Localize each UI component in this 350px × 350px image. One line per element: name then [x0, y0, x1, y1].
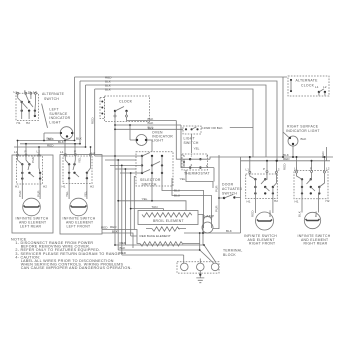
- svg-text:YEL: YEL: [78, 157, 82, 163]
- svg-text:PUR: PUR: [31, 156, 35, 163]
- svg-text:YEL: YEL: [180, 177, 186, 181]
- svg-text:4: 4: [206, 154, 208, 158]
- svg-text:SELECTOR: SELECTOR: [140, 178, 161, 182]
- element right front: [256, 212, 274, 230]
- wire PUR vertical to door switch: [218, 155, 220, 198]
- wire BLU 2: [172, 186, 212, 220]
- svg-text:SWITCH: SWITCH: [44, 97, 59, 101]
- svg-text:L2: L2: [323, 85, 327, 89]
- svg-text:PUR: PUR: [18, 190, 22, 197]
- wire bus BLK 2: [80, 81, 277, 161]
- svg-text:L1: L1: [294, 167, 298, 171]
- svg-text:BLK: BLK: [298, 210, 302, 217]
- svg-text:ALTERNATE: ALTERNATE: [42, 92, 65, 96]
- svg-text:P: P: [263, 167, 265, 171]
- svg-text:RED BAKE ELEMENT: RED BAKE ELEMENT: [140, 234, 171, 238]
- junction dots on rails 2: [249, 156, 326, 162]
- clock switch contacts: [114, 107, 128, 118]
- svg-text:ALTERNATE: ALTERNATE: [296, 79, 319, 83]
- svg-text:DOOR: DOOR: [222, 183, 234, 187]
- wire bake element right: [183, 233, 200, 250]
- lamp: [202, 214, 215, 233]
- svg-text:CAN CAUSE IMPROPER AND DANGERO: CAN CAUSE IMPROPER AND DANGEROUS OPERATI…: [21, 266, 132, 270]
- svg-text:BLU: BLU: [174, 189, 180, 193]
- svg-text:YEL: YEL: [142, 197, 148, 201]
- wire clock left terminal long vertical: [114, 117, 116, 245]
- svg-text:ACTUATED: ACTUATED: [222, 187, 243, 191]
- wire selector rail 3: [110, 165, 184, 263]
- junction dots on rails: [276, 156, 294, 162]
- wire left vertical 2: [79, 81, 81, 144]
- wire selector rail 6: [134, 177, 136, 230]
- wire right rail RED: [241, 160, 331, 162]
- svg-text:H2: H2: [26, 121, 30, 125]
- svg-text:INDICATOR LIGHT: INDICATOR LIGHT: [286, 129, 320, 133]
- wire bus RED top: [75, 77, 288, 157]
- svg-text:RIGHT FRONT: RIGHT FRONT: [249, 242, 275, 246]
- broil element coil lower: [152, 227, 179, 231]
- svg-text:THERMOSTAT: THERMOSTAT: [184, 172, 210, 176]
- svg-text:1: 1: [191, 154, 193, 158]
- infinite switch left rear dashed box: [17, 156, 43, 184]
- terminal block feed diagonals: [200, 245, 216, 263]
- svg-text:LIGHT: LIGHT: [49, 120, 61, 124]
- wire right rail BLK: [244, 156, 333, 158]
- infinite switch right front dashed box: [246, 174, 278, 199]
- right rear terminals: [294, 166, 330, 203]
- wire bottom rail RED: [102, 230, 140, 244]
- infinite switch left front dashed box: [63, 156, 92, 184]
- wire rail RED to left blocks: [14, 146, 86, 148]
- svg-text:L2: L2: [37, 150, 41, 154]
- clock left connector: [100, 98, 105, 119]
- junction dots various: [43, 124, 220, 251]
- alternate clock switch: [315, 85, 327, 96]
- svg-text:L2: L2: [92, 151, 96, 155]
- svg-text:PUR: PUR: [215, 205, 219, 212]
- svg-text:CLOCK: CLOCK: [301, 84, 315, 88]
- wire center vertical 2 to thermostat row2: [181, 125, 184, 168]
- wire left vertical 1: [74, 77, 76, 141]
- wires to element left rear: [22, 179, 40, 199]
- light switch contacts: [185, 127, 203, 131]
- wire broil right down: [198, 215, 203, 234]
- svg-text:L1: L1: [315, 85, 319, 89]
- svg-text:RED: RED: [120, 241, 127, 245]
- wire selector rail 5: [120, 173, 142, 236]
- wire mid post stub: [199, 259, 201, 264]
- selector switch contacts: [141, 153, 172, 187]
- svg-text:RED: RED: [110, 225, 117, 229]
- wire bus BLK 3: [86, 85, 267, 157]
- svg-text:RED: RED: [91, 117, 95, 124]
- bake element coil: [140, 242, 183, 246]
- svg-text:BLK: BLK: [120, 246, 127, 250]
- wire YEL thermostat bottom: [186, 170, 213, 188]
- svg-text:L1: L1: [60, 150, 64, 154]
- svg-text:P: P: [25, 150, 27, 154]
- alternate clock dashed box: [288, 76, 329, 96]
- wire door switch right loop: [184, 157, 241, 233]
- wire center vertical 1 to thermostat row1: [176, 121, 190, 160]
- wire thermostat row2 right down: [213, 168, 215, 182]
- door actuated switch: [219, 195, 241, 200]
- svg-text:BLK: BLK: [148, 117, 155, 121]
- infinite switch right rear dashed box: [294, 171, 328, 199]
- svg-text:BLK: BLK: [148, 121, 155, 125]
- svg-text:BLK: BLK: [301, 137, 308, 141]
- wire rail BLK2 to left blocks: [20, 143, 80, 145]
- svg-text:RED: RED: [251, 210, 255, 217]
- svg-text:LIGHT: LIGHT: [152, 139, 164, 143]
- wire pointer to light: [42, 104, 48, 128]
- svg-text:2WR OR BLK: 2WR OR BLK: [204, 126, 224, 130]
- svg-text:5: 5: [183, 154, 185, 158]
- wire 2WR to right bus drop: [230, 127, 253, 129]
- infinite switch left rear block box: [12, 155, 53, 233]
- svg-text:P: P: [74, 150, 76, 154]
- wire YEL selector down: [118, 186, 186, 211]
- wire BLK line 2: [115, 124, 181, 126]
- wire feeders block LF terminals: [65, 141, 91, 155]
- svg-text:BLK: BLK: [58, 140, 65, 144]
- wire selector rail 4: [115, 169, 136, 245]
- wire feeders block LR terminals: [18, 141, 40, 156]
- svg-text:CLOCK: CLOCK: [119, 100, 133, 104]
- wires to element left front: [69, 178, 87, 199]
- selector switch dashed box: [136, 152, 173, 186]
- element right rear: [304, 212, 320, 228]
- wire bus BLK 4: [95, 89, 253, 157]
- svg-text:2: 2: [191, 163, 193, 167]
- svg-text:L1: L1: [246, 167, 250, 171]
- wire BLU selector to lamp: [162, 186, 204, 220]
- infinite switch left front block box: [60, 155, 102, 234]
- svg-text:L1: L1: [14, 150, 18, 154]
- svg-text:H2: H2: [274, 199, 278, 203]
- svg-text:H1: H1: [17, 121, 21, 125]
- terminals left front: [60, 150, 95, 189]
- svg-text:LIGHT: LIGHT: [184, 137, 196, 141]
- svg-text:YEL: YEL: [65, 191, 69, 197]
- svg-text:RED: RED: [283, 163, 287, 170]
- svg-text:PUR: PUR: [215, 185, 219, 192]
- wires to element right rear: [302, 193, 319, 212]
- alternate clock left connector: [290, 79, 292, 92]
- svg-text:H2: H2: [326, 199, 330, 203]
- wire lamp right to door loop: [213, 198, 219, 229]
- svg-text:PUR: PUR: [37, 190, 41, 197]
- wire right RED vertical: [325, 147, 327, 161]
- ground symbol: [196, 271, 204, 283]
- svg-text:YEL: YEL: [194, 147, 200, 151]
- element left rear: [23, 198, 41, 216]
- wire clock right terminal to BLK line1: [127, 117, 177, 121]
- svg-text:TERMINAL: TERMINAL: [223, 249, 243, 253]
- wire YEL light switch down: [191, 134, 193, 153]
- vertical feeders right front block: [250, 157, 277, 171]
- svg-text:H1: H1: [295, 199, 299, 203]
- light switch dashed box: [183, 126, 201, 134]
- svg-text:BLK: BLK: [105, 87, 112, 91]
- right front terminals: [246, 167, 280, 203]
- wire bottom rail BLK: [102, 233, 133, 248]
- oven indicator light LT2: [130, 125, 152, 152]
- svg-text:BLK: BLK: [48, 137, 55, 141]
- wire broil lower leads: [146, 228, 186, 230]
- broil element box: [138, 211, 198, 225]
- notice text block: [11, 237, 132, 270]
- terminal block posts: [181, 263, 219, 271]
- svg-text:H2: H2: [90, 185, 94, 189]
- wire thermostat row1 right to rail: [210, 157, 244, 159]
- svg-text:BLOCK: BLOCK: [223, 253, 236, 257]
- wire selector rail 2: [105, 160, 200, 250]
- svg-text:H1: H1: [15, 185, 19, 189]
- thermostat contacts: [183, 154, 214, 169]
- svg-text:LEFT REAR: LEFT REAR: [20, 225, 42, 229]
- vertical feeders right rear block: [297, 157, 325, 171]
- svg-text:BLK: BLK: [76, 137, 83, 141]
- terminals left rear: [14, 150, 47, 189]
- svg-text:SWITCH: SWITCH: [142, 183, 157, 187]
- alternate switch AS1 dashed box: [14, 89, 39, 125]
- element left front: [70, 198, 88, 216]
- svg-text:H2: H2: [43, 185, 47, 189]
- svg-text:TAN: TAN: [152, 205, 158, 209]
- svg-text:RED: RED: [283, 157, 290, 161]
- svg-text:H1: H1: [62, 185, 66, 189]
- thermostat dashed box: [182, 154, 208, 170]
- left surface indicator light LT1: [44, 127, 75, 141]
- svg-text:SWITCH: SWITCH: [222, 192, 237, 196]
- wire TAN: [131, 209, 164, 211]
- wires to element right front: [255, 193, 273, 213]
- wire BLK line 3 light switch lead: [115, 128, 183, 130]
- wire selector rail 1: [95, 156, 204, 245]
- svg-text:LEFT FRONT: LEFT FRONT: [67, 225, 91, 229]
- svg-text:RED: RED: [120, 251, 127, 255]
- svg-text:YEL: YEL: [83, 191, 87, 197]
- svg-text:H1: H1: [247, 199, 251, 203]
- clock dashed box: [105, 96, 150, 122]
- svg-text:BLU: BLU: [174, 194, 180, 198]
- broil element coil top: [142, 213, 192, 217]
- terminal block dashed outline: [177, 262, 219, 273]
- svg-text:RED: RED: [47, 143, 54, 147]
- wire left vertical 4: [94, 89, 96, 156]
- svg-text:BLK: BLK: [226, 229, 233, 233]
- right surface indicator light: [283, 132, 298, 157]
- alternate switch contacts: [17, 92, 37, 119]
- svg-text:RED: RED: [101, 226, 108, 230]
- svg-text:L2: L2: [326, 167, 330, 171]
- svg-text:RIGHT REAR: RIGHT REAR: [304, 242, 328, 246]
- wire lamp bottom into rail: [202, 233, 204, 245]
- svg-text:BROIL ELEMENT: BROIL ELEMENT: [153, 219, 184, 223]
- wire left vertical 3: [85, 85, 87, 147]
- wire rail BLK to left blocks: [18, 140, 75, 142]
